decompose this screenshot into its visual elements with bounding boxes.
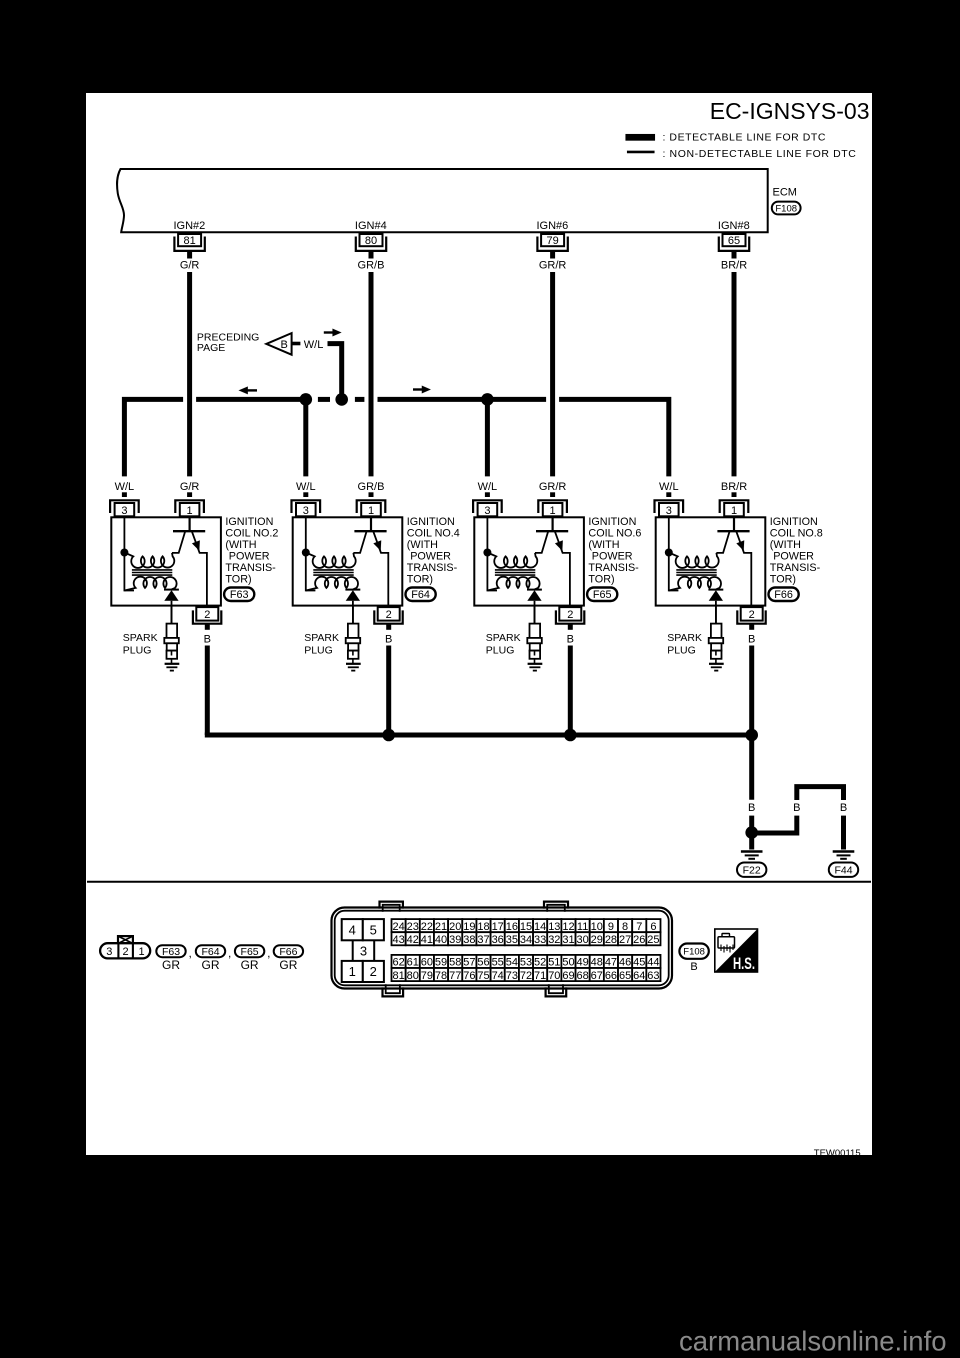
svg-text:F44: F44 [834, 864, 852, 876]
ECM pin 80 (IGN#4) [355, 220, 387, 251]
wire W/L stub to pin 3 [122, 492, 127, 497]
transformer core [313, 570, 353, 575]
connector F108 label (B) [679, 944, 708, 974]
svg-text:21: 21 [435, 921, 447, 933]
wire B down to ground junction [748, 735, 755, 828]
svg-text:IGN#4: IGN#4 [355, 220, 387, 232]
pin 2 [374, 607, 402, 624]
svg-text:GR: GR [202, 958, 220, 972]
ECM pin 81 (IGN#2) [174, 220, 206, 251]
svg-text:B: B [690, 961, 697, 973]
svg-text:74: 74 [492, 970, 504, 982]
svg-text:4: 4 [349, 922, 356, 937]
ECM pin 79 (IGN#6) [537, 220, 569, 251]
wire W/L bus segment (right, to coil no.8 pin 3) [559, 399, 669, 476]
wire B (coil no.6 pin 2 to ground bus) [567, 624, 574, 735]
svg-text:B: B [793, 802, 800, 814]
svg-text:(WITH: (WITH [225, 539, 256, 551]
svg-text:GR: GR [241, 958, 259, 972]
transformer core [676, 570, 716, 575]
svg-text:2: 2 [749, 609, 755, 621]
svg-text:56: 56 [477, 957, 489, 969]
svg-text:POWER: POWER [229, 550, 270, 562]
wire W/L bus segment (left, to coil no.2 pin 3) [124, 399, 183, 476]
pin row 81-63 [392, 968, 661, 982]
junction (coil no.6 B) [564, 729, 577, 742]
svg-text:SPARK: SPARK [123, 632, 158, 644]
primary winding [669, 553, 719, 568]
junction (W/L to coil no.6) [481, 393, 494, 406]
svg-text:76: 76 [463, 970, 475, 982]
ignition coil no.2 (with power transistor) F63 [110, 481, 278, 735]
svg-text:GR/B: GR/B [358, 481, 385, 493]
primary winding [306, 553, 356, 568]
svg-text:F66: F66 [279, 946, 297, 958]
svg-text:14: 14 [534, 921, 546, 933]
svg-text:22: 22 [421, 921, 433, 933]
wire from pin 3 inside coil [124, 516, 134, 590]
page connector B (preceding page) [266, 333, 300, 355]
svg-text:48: 48 [591, 957, 603, 969]
junction (primary tap) [665, 549, 673, 557]
wire dash [355, 397, 365, 402]
svg-text:23: 23 [407, 921, 419, 933]
ECM box [117, 169, 768, 232]
svg-text:F65: F65 [241, 946, 259, 958]
svg-text:69: 69 [562, 970, 574, 982]
transformer core [495, 570, 535, 575]
wire W/L from preceding page to bus junction [328, 344, 342, 400]
ground F22 [737, 838, 766, 877]
svg-text:36: 36 [492, 934, 504, 946]
legend: non-detectable line for DTC [627, 148, 856, 160]
pin row 43-25 [392, 932, 661, 946]
key pins 4 5 3 1 2 [342, 919, 384, 982]
coil box outline [474, 517, 584, 605]
svg-text:3: 3 [484, 505, 490, 517]
diode (secondary to spark plug) [527, 590, 542, 624]
svg-text:49: 49 [577, 957, 589, 969]
svg-text:53: 53 [520, 957, 532, 969]
pin 1 [175, 500, 204, 517]
svg-text:3: 3 [666, 505, 672, 517]
arrow right (at W/L source) [324, 329, 342, 337]
svg-text:52: 52 [534, 957, 546, 969]
svg-text:IGNITION: IGNITION [225, 516, 273, 528]
power transistor [535, 516, 570, 612]
svg-text:2: 2 [386, 609, 392, 621]
transformer core [132, 570, 172, 575]
power transistor [172, 516, 207, 612]
connector icon [718, 934, 735, 953]
svg-text:W/L: W/L [115, 481, 135, 493]
svg-text:B: B [281, 339, 288, 351]
connector F66 label (GR) [274, 945, 303, 972]
wire GR/R (IGN#6 to ignition coil pin 1) [539, 251, 567, 497]
ground (spark plug) [528, 664, 543, 671]
svg-text:POWER: POWER [592, 550, 633, 562]
svg-text:IGNITION: IGNITION [770, 516, 818, 528]
svg-text:67: 67 [591, 970, 603, 982]
wire G/R (IGN#2 to ignition coil pin 1) [180, 251, 200, 497]
svg-text:BR/R: BR/R [721, 481, 747, 493]
svg-text:: NON-DETECTABLE LINE FOR DTC: : NON-DETECTABLE LINE FOR DTC [663, 148, 857, 160]
svg-text:1: 1 [349, 964, 356, 979]
svg-text:60: 60 [421, 957, 433, 969]
svg-text:TEW00115: TEW00115 [814, 1148, 861, 1159]
svg-text:16: 16 [506, 921, 518, 933]
power transistor [353, 516, 388, 612]
svg-text:18: 18 [477, 921, 489, 933]
svg-text:66: 66 [605, 970, 617, 982]
pin 3 [110, 500, 139, 517]
svg-text:40: 40 [435, 934, 447, 946]
svg-text:COIL NO.2: COIL NO.2 [225, 528, 278, 540]
svg-text:B: B [748, 634, 755, 646]
secondary winding [306, 577, 358, 591]
svg-text:F64: F64 [411, 589, 430, 601]
svg-text:F64: F64 [201, 946, 219, 958]
svg-text:17: 17 [492, 921, 504, 933]
svg-text:G/R: G/R [180, 260, 200, 272]
svg-text:GR/R: GR/R [539, 260, 567, 272]
svg-text:ECM: ECM [773, 187, 797, 199]
svg-text:IGN#2: IGN#2 [174, 220, 206, 232]
junction (W/L to coil no.4) [300, 393, 313, 406]
svg-text:PLUG: PLUG [667, 645, 696, 657]
junction (coil no.4 B) [382, 729, 395, 742]
svg-text:68: 68 [577, 970, 589, 982]
pin row 24-6 [392, 919, 661, 933]
svg-text:B: B [204, 634, 211, 646]
svg-text:GR/R: GR/R [539, 481, 567, 493]
power transistor [716, 516, 751, 612]
ground (spark plug) [709, 664, 724, 671]
svg-text:75: 75 [477, 970, 489, 982]
pin 1 [720, 500, 749, 517]
svg-text:20: 20 [449, 921, 461, 933]
svg-text:34: 34 [520, 934, 532, 946]
label SPARK PLUG [123, 632, 158, 657]
svg-text:carmanualsonline.info: carmanualsonline.info [679, 1326, 947, 1357]
ECM pin 65 (IGN#8) [718, 220, 750, 251]
svg-text:1: 1 [731, 505, 737, 517]
label IGNITION COIL NO.6 [588, 516, 641, 585]
wire B (coil no.8 pin 2 to ground bus) [748, 624, 755, 735]
secondary winding [669, 577, 721, 591]
svg-text:43: 43 [392, 934, 404, 946]
connector F65 label [587, 588, 617, 602]
svg-text:COIL NO.8: COIL NO.8 [770, 528, 823, 540]
svg-text:POWER: POWER [773, 550, 814, 562]
svg-text:32: 32 [548, 934, 560, 946]
svg-text:19: 19 [463, 921, 475, 933]
svg-text:57: 57 [463, 957, 475, 969]
label IGNITION COIL NO.4 [407, 516, 460, 585]
svg-text:70: 70 [548, 970, 560, 982]
svg-text:11: 11 [577, 921, 588, 933]
svg-text:51: 51 [548, 957, 560, 969]
svg-text:26: 26 [633, 934, 645, 946]
svg-text:W/L: W/L [659, 481, 679, 493]
ignition coil no.8 (with power transistor) F66 [655, 481, 823, 735]
svg-text:H.S.: H.S. [733, 955, 755, 973]
svg-text:EC-IGNSYS-03: EC-IGNSYS-03 [710, 98, 870, 124]
spark plug [164, 606, 179, 664]
label IGNITION COIL NO.8 [770, 516, 823, 585]
connector housing [332, 902, 673, 997]
svg-text:TRANSIS-: TRANSIS- [588, 562, 639, 574]
legend: detectable line for DTC [626, 132, 827, 144]
wire from pin 3 inside coil [487, 516, 497, 590]
svg-text:TRANSIS-: TRANSIS- [407, 562, 458, 574]
svg-text:78: 78 [435, 970, 447, 982]
svg-text:PLUG: PLUG [486, 645, 515, 657]
svg-text:10: 10 [591, 921, 603, 933]
svg-text:PLUG: PLUG [304, 645, 333, 657]
svg-text:38: 38 [463, 934, 475, 946]
coil box outline [111, 517, 221, 605]
svg-text:54: 54 [506, 957, 518, 969]
connector F63 label (GR) [156, 945, 185, 972]
svg-text:64: 64 [633, 970, 645, 982]
svg-text:44: 44 [647, 957, 659, 969]
svg-text:SPARK: SPARK [304, 632, 339, 644]
svg-text:W/L: W/L [478, 481, 498, 493]
svg-text:3: 3 [121, 505, 127, 517]
svg-text:65: 65 [619, 970, 631, 982]
wire from pin 3 inside coil [669, 516, 679, 590]
wire W/L drop to coil no.6 pin 3 [485, 399, 490, 476]
connector F65 label (GR) [235, 945, 264, 972]
svg-text:IGNITION: IGNITION [588, 516, 636, 528]
pin 3 [655, 500, 684, 517]
primary winding [124, 553, 174, 568]
label SPARK PLUG [486, 632, 521, 657]
arrow right (on bus) [413, 386, 431, 394]
secondary winding [487, 577, 539, 591]
section divider [87, 881, 871, 883]
svg-text:7: 7 [636, 921, 642, 933]
wire W/L stub to pin 3 [666, 492, 671, 497]
svg-text:F22: F22 [743, 864, 761, 876]
svg-text:29: 29 [591, 934, 603, 946]
svg-text:COIL NO.6: COIL NO.6 [588, 528, 641, 540]
svg-text:W/L: W/L [296, 481, 316, 493]
svg-text:13: 13 [548, 921, 560, 933]
diode (secondary to spark plug) [708, 590, 723, 624]
svg-text:27: 27 [619, 934, 631, 946]
ignition coil no.6 (with power transistor) F65 [473, 481, 641, 735]
wire W/L bus segment [196, 397, 306, 402]
svg-text:12: 12 [562, 921, 574, 933]
ground F44 [829, 852, 858, 877]
pin 1 [538, 500, 567, 517]
diode (secondary to spark plug) [345, 590, 360, 624]
connector F108 label [772, 202, 801, 215]
svg-text:55: 55 [492, 957, 504, 969]
wire GR/B (IGN#4 to ignition coil pin 1) [358, 251, 385, 497]
ground (spark plug) [165, 664, 180, 671]
svg-text:72: 72 [520, 970, 532, 982]
pin row 62-44 [392, 955, 661, 969]
svg-text:1: 1 [138, 946, 144, 958]
junction (ground splice) [745, 826, 758, 839]
wire B (splice to ground F44) [752, 787, 847, 850]
wire W/L bus segment [378, 397, 547, 402]
svg-text:GR: GR [279, 958, 297, 972]
svg-text:81: 81 [392, 970, 404, 982]
ground (spark plug) [346, 664, 361, 671]
svg-text:8: 8 [622, 921, 628, 933]
svg-text:37: 37 [477, 934, 489, 946]
svg-text:B: B [840, 802, 847, 814]
svg-text:1: 1 [550, 505, 556, 517]
junction (coil no.8 B) [745, 729, 758, 742]
label SPARK PLUG [304, 632, 339, 657]
label IGNITION COIL NO.2 [225, 516, 278, 585]
junction (primary tap) [302, 549, 310, 557]
svg-text:79: 79 [421, 970, 433, 982]
svg-text:1: 1 [368, 505, 374, 517]
svg-text:80: 80 [407, 970, 419, 982]
coil box outline [656, 517, 766, 605]
wire B (coil no.2 pin 2 to ground bus) [204, 624, 211, 735]
connector F64 label (GR) [196, 945, 225, 972]
svg-text:46: 46 [619, 957, 631, 969]
svg-text:6: 6 [650, 921, 656, 933]
svg-text:50: 50 [562, 957, 574, 969]
svg-text:SPARK: SPARK [667, 632, 702, 644]
pin 3 [473, 500, 502, 517]
svg-text:24: 24 [392, 921, 404, 933]
svg-text:39: 39 [449, 934, 461, 946]
junction (W/L feed) [335, 393, 348, 406]
svg-text:(WITH: (WITH [770, 539, 801, 551]
svg-text:F63: F63 [230, 589, 249, 601]
diode (secondary to spark plug) [164, 590, 179, 624]
wire dash [318, 397, 330, 402]
connector view 3-2-1 (coil connector) [100, 936, 150, 958]
wire W/L stub to pin 3 [303, 492, 308, 497]
svg-text:TRANSIS-: TRANSIS- [225, 562, 276, 574]
svg-text:(WITH: (WITH [407, 539, 438, 551]
primary winding [487, 553, 537, 568]
svg-text:IGN#6: IGN#6 [537, 220, 569, 232]
svg-text:F65: F65 [593, 589, 612, 601]
svg-text:25: 25 [647, 934, 659, 946]
svg-text:B: B [748, 802, 755, 814]
pin 2 [556, 607, 584, 624]
svg-text:41: 41 [421, 934, 433, 946]
svg-text:2: 2 [567, 609, 573, 621]
svg-text:45: 45 [633, 957, 645, 969]
connector F66 label [769, 588, 799, 602]
svg-text:62: 62 [392, 957, 404, 969]
coil box outline [293, 517, 403, 605]
wire W/L drop to coil no.4 pin 3 [303, 399, 308, 476]
connector F64 label [406, 588, 436, 602]
svg-text:77: 77 [449, 970, 461, 982]
ECM connector F108 pin layout [332, 902, 673, 997]
svg-text:,: , [189, 946, 192, 960]
svg-text:GR: GR [162, 958, 180, 972]
svg-text:79: 79 [546, 235, 558, 247]
svg-text:TRANSIS-: TRANSIS- [770, 562, 821, 574]
svg-text:PAGE: PAGE [197, 342, 225, 354]
svg-text:,: , [228, 946, 231, 960]
svg-text:28: 28 [605, 934, 617, 946]
spark plug [709, 606, 724, 664]
pin 3 [292, 500, 321, 517]
svg-text:1: 1 [187, 505, 193, 517]
svg-text:59: 59 [435, 957, 447, 969]
svg-text:COIL NO.4: COIL NO.4 [407, 528, 460, 540]
svg-text:TOR): TOR) [588, 573, 614, 585]
wire B (coil no.4 pin 2 to ground bus) [385, 624, 392, 735]
svg-text:TOR): TOR) [225, 573, 251, 585]
svg-text:71: 71 [534, 970, 546, 982]
svg-text:TOR): TOR) [770, 573, 796, 585]
svg-text:73: 73 [506, 970, 518, 982]
svg-text:42: 42 [407, 934, 419, 946]
label SPARK PLUG [667, 632, 702, 657]
svg-text:15: 15 [520, 921, 532, 933]
pin 2 [193, 607, 221, 624]
svg-text:81: 81 [183, 235, 195, 247]
svg-text:63: 63 [647, 970, 659, 982]
wire from pin 3 inside coil [306, 516, 316, 590]
svg-text:: DETECTABLE LINE FOR DTC: : DETECTABLE LINE FOR DTC [663, 132, 827, 144]
ignition coil no.4 (with power transistor) F64 [292, 481, 460, 735]
svg-text:BR/R: BR/R [721, 260, 747, 272]
svg-text:3: 3 [106, 946, 112, 958]
svg-text:3: 3 [360, 943, 367, 958]
svg-text:GR/B: GR/B [358, 260, 385, 272]
svg-text:2: 2 [123, 946, 129, 958]
svg-text:3: 3 [303, 505, 309, 517]
svg-text:F108: F108 [775, 203, 797, 214]
svg-text:B: B [567, 634, 574, 646]
svg-text:31: 31 [562, 934, 574, 946]
svg-text:30: 30 [577, 934, 589, 946]
svg-text:F63: F63 [162, 946, 180, 958]
junction (primary tap) [483, 549, 491, 557]
wire W/L stub to pin 3 [485, 492, 490, 497]
wire B ground bus [205, 733, 752, 738]
svg-text:5: 5 [370, 922, 377, 937]
svg-text:W/L: W/L [304, 339, 324, 351]
svg-text:B: B [385, 634, 392, 646]
pin 1 [357, 500, 386, 517]
svg-text:9: 9 [608, 921, 614, 933]
svg-text:65: 65 [728, 235, 740, 247]
spark plug [527, 606, 542, 664]
svg-text:33: 33 [534, 934, 546, 946]
svg-text:2: 2 [204, 609, 210, 621]
svg-text:47: 47 [605, 957, 617, 969]
svg-text:IGNITION: IGNITION [407, 516, 455, 528]
secondary winding [124, 577, 176, 591]
spark plug [346, 606, 361, 664]
svg-text:F108: F108 [683, 947, 705, 958]
svg-text:PLUG: PLUG [123, 645, 152, 657]
arrow left (on bus) [239, 387, 257, 395]
svg-text:80: 80 [365, 235, 377, 247]
svg-text:35: 35 [506, 934, 518, 946]
svg-text:2: 2 [370, 964, 377, 979]
junction (primary tap) [120, 549, 128, 557]
